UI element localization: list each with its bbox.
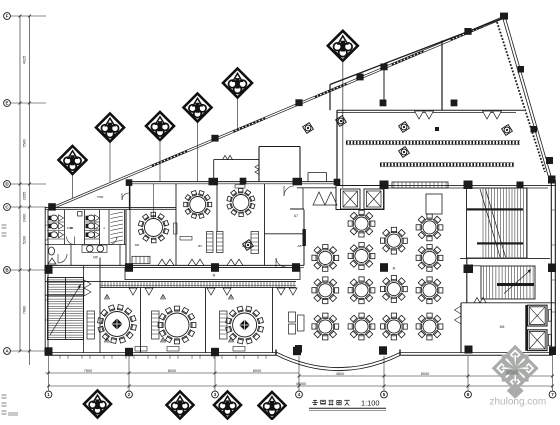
svg-text:7580: 7580: [97, 195, 104, 199]
svg-text:4: 4: [298, 392, 301, 397]
svg-text:M5: M5: [93, 256, 98, 260]
svg-text:A7: A7: [294, 214, 298, 218]
svg-text:F: F: [6, 14, 9, 19]
svg-text:45000: 45000: [296, 382, 307, 386]
svg-text:t87: t87: [198, 244, 203, 248]
svg-text:zhulong.com: zhulong.com: [490, 397, 547, 408]
svg-text:1:100: 1:100: [361, 399, 380, 408]
svg-text:4025: 4025: [23, 56, 27, 64]
svg-text:2: 2: [128, 392, 131, 397]
svg-text:M: M: [393, 267, 396, 271]
svg-text:2055: 2055: [23, 192, 27, 200]
svg-text:2400: 2400: [23, 214, 27, 222]
svg-text:M8: M8: [135, 243, 139, 247]
svg-text:5: 5: [383, 392, 386, 397]
svg-text:5200: 5200: [23, 236, 27, 244]
svg-text:7580: 7580: [23, 139, 27, 147]
svg-text:8000: 8000: [253, 369, 261, 373]
svg-text:1258: 1258: [67, 226, 74, 230]
svg-text:3: 3: [214, 392, 217, 397]
svg-text:t87: t87: [242, 244, 247, 248]
svg-text:8000: 8000: [168, 369, 176, 373]
svg-text:A87: A87: [297, 244, 303, 248]
svg-text:8: 8: [467, 392, 470, 397]
svg-text:1: 1: [47, 392, 50, 397]
svg-text:M: M: [213, 274, 216, 278]
svg-text:7500: 7500: [84, 369, 92, 373]
svg-text:7: 7: [551, 392, 554, 397]
svg-text:4354: 4354: [94, 227, 101, 231]
svg-text:4800: 4800: [336, 372, 344, 376]
svg-text:7680: 7680: [23, 306, 27, 314]
svg-text:M6: M6: [500, 325, 505, 329]
svg-text:8000: 8000: [421, 372, 429, 376]
svg-text:E: E: [5, 101, 8, 106]
